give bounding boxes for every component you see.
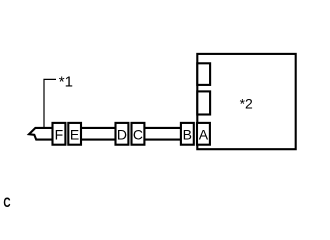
svg-text:B: B [183,127,192,143]
connector terminal box D [116,123,129,145]
connector key notch upper [197,63,210,85]
wire segment E to D (double line) [80,127,116,129]
connector terminal box F [53,123,66,145]
connector key notch lower [197,91,210,114]
svg-text:*1: *1 [59,73,73,90]
connector terminal box B [181,123,194,145]
leader line to note *1 [44,79,56,127]
connector terminal box A [197,123,210,145]
connector terminal box E [68,123,81,145]
svg-text:D: D [117,127,127,143]
svg-text:*2: *2 [240,96,253,112]
wire segment C to B (double line) [144,127,181,129]
ECU box *2 [197,54,295,149]
svg-text:C: C [3,194,10,210]
connector terminal box C [132,123,145,145]
svg-text:F: F [55,127,64,143]
svg-text:A: A [199,127,209,143]
harness continuation arrow (to *1 wire) [29,128,52,140]
svg-text:C: C [133,127,143,143]
svg-text:E: E [70,127,79,143]
